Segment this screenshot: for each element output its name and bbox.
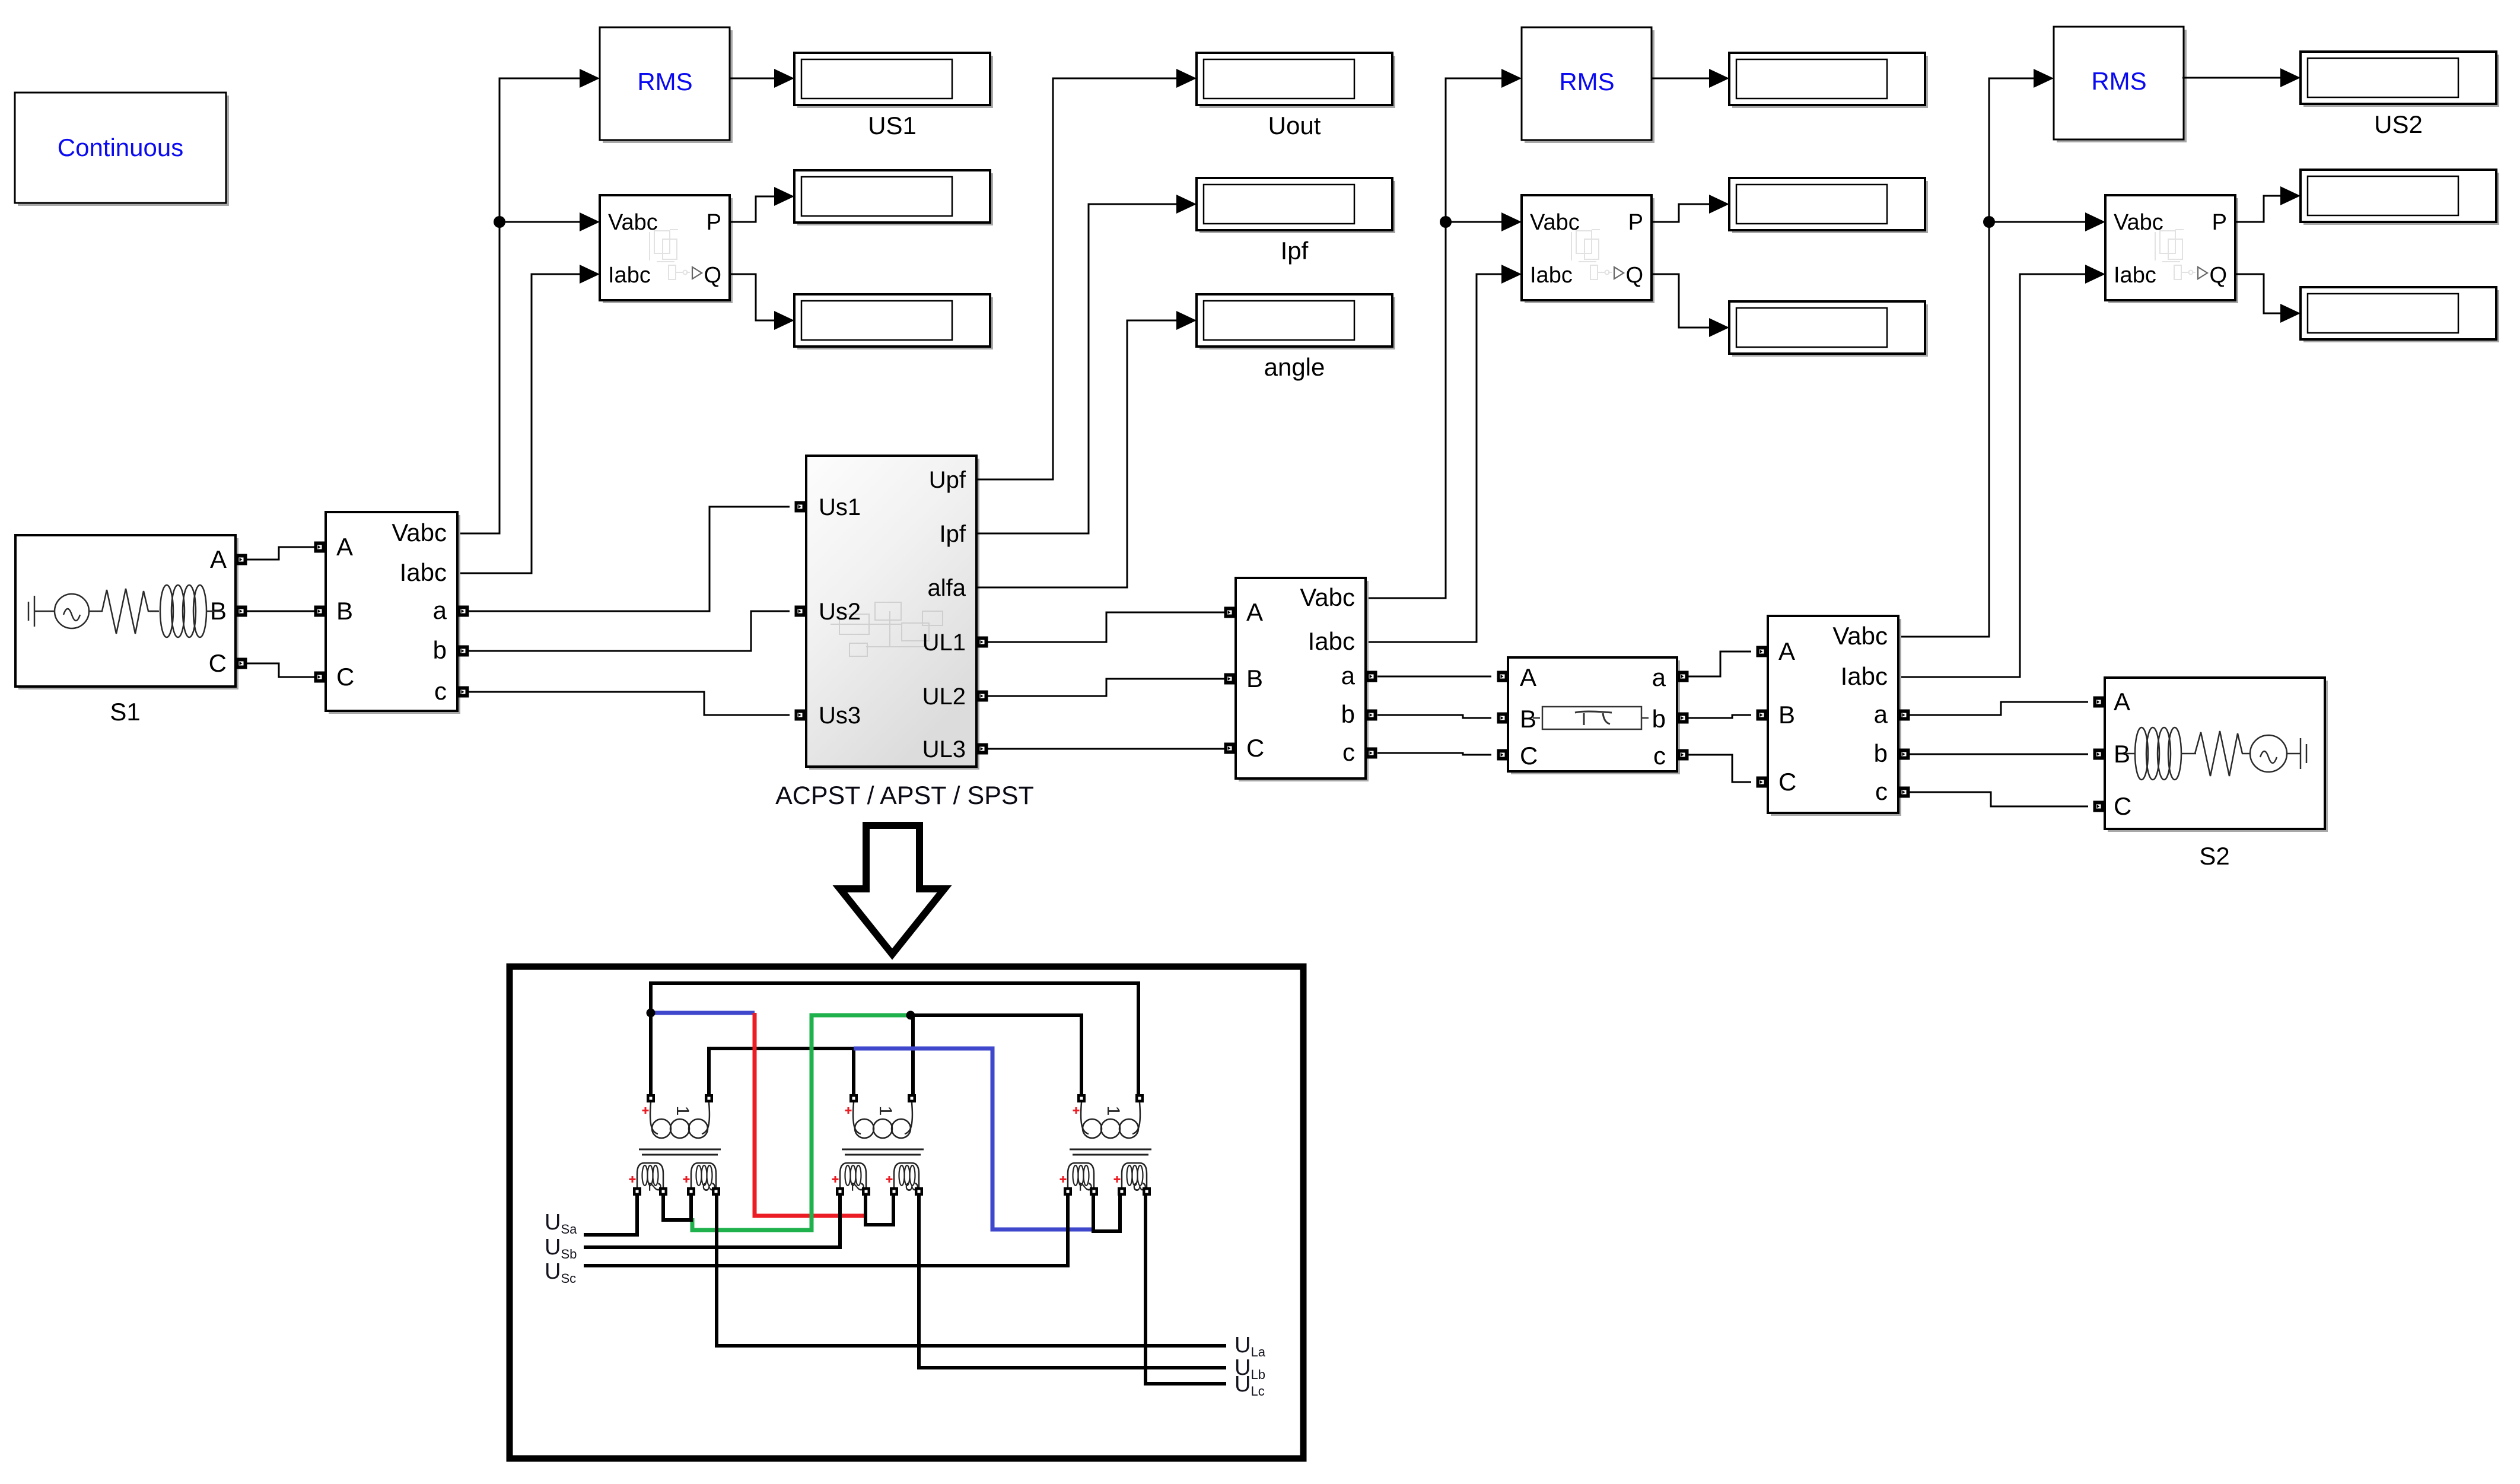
svg-text:Us1: Us1 bbox=[819, 494, 861, 520]
svg-text:Upf: Upf bbox=[929, 467, 966, 493]
svg-text:Iabc: Iabc bbox=[608, 263, 651, 288]
svg-text:C: C bbox=[209, 649, 227, 677]
svg-text:Vabc: Vabc bbox=[1530, 210, 1580, 235]
svg-text:ACPST / APST / SPST: ACPST / APST / SPST bbox=[775, 781, 1034, 810]
svg-text:b: b bbox=[1652, 705, 1666, 733]
svg-text:A: A bbox=[2114, 688, 2130, 716]
svg-text:UL1: UL1 bbox=[922, 630, 966, 656]
svg-text:C: C bbox=[1246, 734, 1264, 762]
svg-text:UL3: UL3 bbox=[922, 736, 966, 762]
svg-text:b: b bbox=[1874, 739, 1888, 767]
svg-text:Ipf: Ipf bbox=[940, 521, 966, 547]
svg-text:Vabc: Vabc bbox=[392, 519, 447, 546]
svg-text:Us2: Us2 bbox=[819, 599, 861, 625]
svg-text:Iabc: Iabc bbox=[400, 558, 447, 586]
svg-text:Continuous: Continuous bbox=[58, 134, 183, 161]
svg-text:Iabc: Iabc bbox=[2114, 263, 2156, 288]
svg-text:1: 1 bbox=[1103, 1106, 1123, 1116]
svg-text:P: P bbox=[2212, 210, 2227, 235]
svg-text:B: B bbox=[1246, 665, 1263, 692]
svg-text:P: P bbox=[707, 210, 721, 235]
svg-text:C: C bbox=[336, 663, 354, 691]
svg-text:B: B bbox=[1778, 701, 1795, 729]
svg-text:1: 1 bbox=[876, 1106, 895, 1116]
svg-text:Iabc: Iabc bbox=[1308, 627, 1355, 655]
svg-text:US2: US2 bbox=[2374, 110, 2423, 138]
svg-text:1: 1 bbox=[673, 1106, 692, 1116]
svg-text:b: b bbox=[433, 636, 447, 664]
svg-text:Vabc: Vabc bbox=[1832, 622, 1888, 650]
svg-text:Iabc: Iabc bbox=[1841, 662, 1888, 690]
svg-text:US1: US1 bbox=[868, 112, 917, 139]
svg-text:c: c bbox=[434, 677, 447, 705]
svg-text:Iabc: Iabc bbox=[1530, 263, 1573, 288]
svg-text:C: C bbox=[1520, 742, 1538, 770]
svg-text:C: C bbox=[1778, 768, 1796, 796]
svg-text:a: a bbox=[433, 596, 447, 624]
svg-text:c: c bbox=[1342, 738, 1355, 766]
svg-text:a: a bbox=[1874, 700, 1888, 728]
svg-text:a: a bbox=[1341, 662, 1356, 689]
svg-text:Q: Q bbox=[2209, 263, 2227, 288]
svg-text:Vabc: Vabc bbox=[1300, 583, 1355, 611]
svg-text:C: C bbox=[2114, 792, 2131, 820]
svg-text:Vabc: Vabc bbox=[2114, 210, 2163, 235]
svg-text:A: A bbox=[336, 533, 353, 561]
svg-text:angle: angle bbox=[1264, 353, 1325, 381]
svg-text:Us3: Us3 bbox=[819, 703, 861, 729]
svg-text:P: P bbox=[1628, 210, 1643, 235]
svg-text:RMS: RMS bbox=[1559, 68, 1614, 96]
svg-text:Q: Q bbox=[704, 263, 721, 288]
svg-text:S1: S1 bbox=[110, 698, 140, 726]
svg-text:Vabc: Vabc bbox=[608, 210, 658, 235]
svg-text:b: b bbox=[1341, 700, 1355, 728]
svg-text:UL2: UL2 bbox=[922, 684, 966, 710]
svg-text:A: A bbox=[210, 545, 227, 573]
svg-text:A: A bbox=[1246, 598, 1263, 626]
svg-text:RMS: RMS bbox=[637, 68, 692, 96]
svg-text:RMS: RMS bbox=[2091, 67, 2146, 95]
svg-text:B: B bbox=[1520, 705, 1536, 733]
svg-text:B: B bbox=[336, 597, 353, 625]
svg-text:Uout: Uout bbox=[1268, 112, 1321, 139]
svg-text:alfa: alfa bbox=[928, 575, 966, 601]
svg-text:Q: Q bbox=[1625, 263, 1643, 288]
svg-text:Ipf: Ipf bbox=[1281, 237, 1309, 265]
svg-text:S2: S2 bbox=[2199, 842, 2229, 870]
svg-text:c: c bbox=[1875, 777, 1888, 805]
svg-text:A: A bbox=[1520, 663, 1536, 691]
svg-text:a: a bbox=[1652, 663, 1666, 691]
svg-text:c: c bbox=[1653, 742, 1666, 770]
svg-text:A: A bbox=[1778, 637, 1795, 665]
